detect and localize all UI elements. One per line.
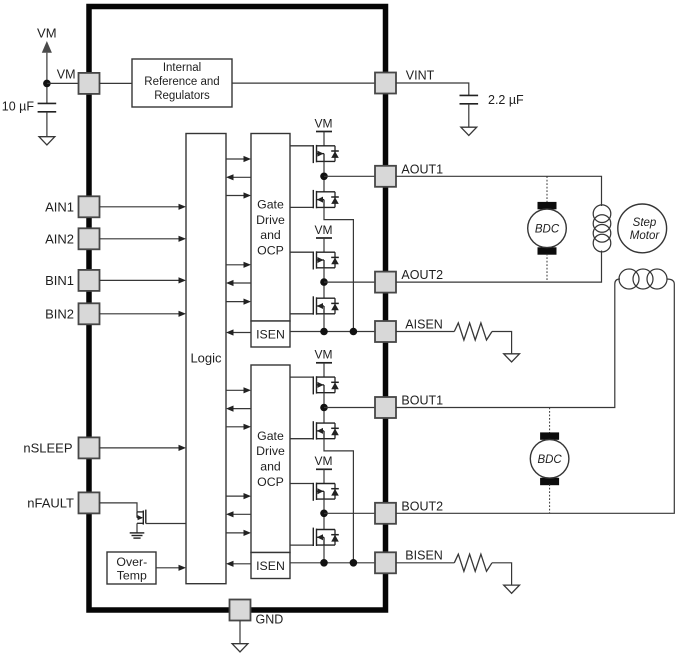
wire VM pin to reference block — [100, 82, 133, 84]
transistor Q8 (B low side 2) — [290, 528, 339, 546]
block Internal Reference and Regulators — [132, 59, 232, 107]
wire VM rail to Q3 drain — [323, 238, 325, 252]
pin VM — [79, 73, 100, 94]
wire Q8 source to ISEN B line — [323, 545, 325, 563]
svg-text:BIN1: BIN1 — [45, 273, 74, 288]
wire AISEN pin to R1 — [396, 331, 454, 333]
pin BOUT2 — [375, 503, 396, 524]
pin AISEN — [375, 321, 396, 342]
pin BIN2 — [79, 303, 100, 324]
pin AIN1 — [79, 196, 100, 217]
wire R1 to ground — [492, 332, 512, 354]
svg-text:nFAULT: nFAULT — [27, 496, 74, 511]
svg-text:BOUT2: BOUT2 — [401, 499, 443, 513]
wire Q1 source to AOUT1 node — [323, 161, 325, 191]
device outline (IC boundary) — [89, 7, 386, 611]
wire VM rail to Q1 drain — [323, 132, 325, 146]
junction ISEN B 1 — [320, 559, 328, 567]
svg-text:Over-: Over- — [116, 555, 147, 569]
wire logic to gate drive B (y=390.3) — [226, 387, 251, 393]
wire VINT pin to C2 — [396, 83, 469, 95]
transistor Q2 (A low side 1) — [290, 190, 339, 208]
resistor R1 (AISEN) (sense) — [454, 323, 492, 340]
svg-text:VM: VM — [315, 454, 333, 468]
svg-text:GND: GND — [256, 612, 284, 626]
wire AOUT2 node to AOUT2 pin — [324, 281, 375, 283]
wire Q2 source to ISEN A line — [324, 207, 353, 331]
wire ISEN B to logic — [226, 561, 251, 567]
svg-text:Gate: Gate — [257, 198, 284, 212]
wire Over-Temp to logic — [156, 565, 186, 571]
wire gate drive A to logic (y=283.0) — [226, 280, 251, 286]
pin VINT — [375, 73, 396, 94]
wire nFAULT pin to Q9 drain — [100, 503, 138, 512]
pin AOUT1 — [375, 166, 396, 187]
ground (open triangle) below R1 — [504, 354, 520, 362]
pin AIN2 — [79, 228, 100, 249]
wire logic to gate drive A (y=195.5) — [226, 192, 251, 198]
svg-text:Gate: Gate — [257, 429, 284, 443]
svg-text:VM: VM — [315, 223, 333, 237]
pin BISEN — [375, 552, 396, 573]
resistor R2 (BISEN) (sense) — [454, 554, 492, 571]
pin BIN1 — [79, 270, 100, 291]
transistor Q1 (A high side 1) — [290, 145, 339, 163]
wire VM arrow to node — [46, 53, 48, 104]
wire VM node to VM pin — [47, 82, 79, 84]
wire AOUT1 pin to winding A — [396, 176, 602, 206]
svg-text:OCP: OCP — [257, 244, 284, 258]
motor BDC 2 (brushed DC) — [530, 432, 569, 485]
svg-text:VM: VM — [57, 68, 76, 82]
svg-text:10 µF: 10 µF — [2, 99, 35, 113]
block Over-Temp — [107, 552, 156, 584]
VM supply rail (A2) — [315, 223, 333, 238]
pin BOUT1 — [375, 397, 396, 418]
transistor Q7 (B high side 2) — [290, 483, 339, 501]
inductor winding A (step motor phase A) — [593, 205, 611, 252]
junction AOUT2 node — [320, 278, 328, 286]
wire reference block to VINT pin — [232, 82, 375, 84]
pin nFAULT — [79, 492, 100, 513]
svg-text:AOUT2: AOUT2 — [401, 268, 443, 282]
wire BISEN pin to R2 — [396, 562, 454, 564]
svg-text:ISEN: ISEN — [256, 559, 285, 573]
transistor Q4 (A low side 2) — [290, 296, 339, 314]
ground (open triangle) below R2 — [504, 585, 520, 593]
pin AOUT2 — [375, 272, 396, 293]
svg-text:Drive: Drive — [256, 213, 285, 227]
wire logic to gate drive A (y=159.0) — [226, 156, 251, 162]
block Gate Drive and OCP (A) — [251, 134, 290, 322]
block Gate Drive and OCP (B) — [251, 365, 290, 553]
svg-text:VM: VM — [315, 116, 333, 130]
transistor Q5 (B high side 1) — [290, 376, 339, 394]
transistor Q3 (A high side 2) — [290, 251, 339, 269]
svg-text:and: and — [260, 228, 281, 242]
svg-text:BOUT1: BOUT1 — [401, 394, 443, 408]
VM supply rail (A1) — [315, 116, 333, 131]
svg-text:nSLEEP: nSLEEP — [23, 441, 72, 456]
svg-text:Internal: Internal — [163, 62, 201, 74]
wire ISEN A sense line — [290, 331, 375, 333]
wire logic to gate drive A (y=264.8) — [226, 262, 251, 268]
capacitor C1 10 uF — [38, 103, 57, 111]
wire Q7 source to BOUT2 node — [323, 499, 325, 529]
motor Step Motor — [618, 204, 667, 253]
svg-text:Drive: Drive — [256, 444, 285, 458]
svg-text:Motor: Motor — [630, 230, 661, 242]
svg-text:AISEN: AISEN — [405, 317, 443, 331]
wire logic to gate drive B (y=532.9) — [226, 530, 251, 536]
svg-text:and: and — [260, 460, 281, 474]
svg-text:BDC: BDC — [537, 454, 562, 466]
wire (dashed) BDC motor 2 to BOUT2 — [549, 484, 551, 513]
junction BOUT2 node — [320, 510, 328, 518]
wire C2 to ground — [468, 104, 470, 127]
wire AIN2 to logic — [100, 236, 187, 242]
VM supply rail (B2) — [315, 454, 333, 469]
svg-text:VM: VM — [37, 26, 57, 41]
wire logic to gate drive A (y=301.6) — [226, 299, 251, 305]
wire Q3 source to AOUT2 node — [323, 268, 325, 298]
ground (open triangle) below C1 — [39, 137, 55, 145]
wire (dashed) BOUT1 to BDC motor 2 — [549, 408, 551, 433]
wire ISEN A to logic — [226, 329, 251, 335]
wire Q4 source to ISEN A line — [323, 314, 325, 332]
wire BOUT1 node to BOUT1 pin — [324, 407, 375, 409]
wire Q6 source to ISEN B line — [324, 439, 353, 563]
junction ISEN B 2 — [350, 559, 358, 567]
svg-text:AIN2: AIN2 — [45, 231, 74, 246]
wire R2 to ground — [492, 563, 512, 585]
wire gate drive B to logic (y=514.3) — [226, 511, 251, 517]
VM supply rail (B1) — [315, 348, 333, 363]
wire AOUT1 node to AOUT1 pin — [324, 175, 375, 177]
wire winding A to AOUT2 pin — [396, 251, 602, 283]
junction ISEN A 2 — [350, 328, 358, 336]
wire winding B to BOUT2 pin — [396, 279, 674, 513]
svg-text:Logic: Logic — [190, 351, 222, 366]
svg-text:VM: VM — [315, 348, 333, 362]
svg-text:2.2 µF: 2.2 µF — [488, 93, 524, 107]
supply arrow VM — [42, 41, 52, 53]
svg-text:AIN1: AIN1 — [45, 199, 74, 214]
svg-text:AOUT1: AOUT1 — [401, 162, 443, 176]
wire BOUT1 pin to winding B — [396, 279, 620, 408]
capacitor C2 2.2 uF — [460, 95, 479, 103]
wire Q9 source to ground — [136, 523, 138, 533]
svg-text:Temp: Temp — [117, 569, 147, 583]
wire GND pin to ground — [239, 621, 241, 644]
svg-text:BDC: BDC — [535, 224, 560, 236]
wire VM rail to Q5 drain — [323, 363, 325, 377]
pin nSLEEP — [79, 437, 100, 458]
svg-text:BIN2: BIN2 — [45, 306, 74, 321]
wire VM rail to Q7 drain — [323, 469, 325, 483]
junction ISEN A 1 — [320, 328, 328, 336]
wire Q9 gate to logic — [146, 523, 186, 525]
wire Q5 source to BOUT1 node — [323, 393, 325, 423]
transistor Q9 (nFAULT open drain) — [137, 510, 146, 525]
wire BOUT2 node to BOUT2 pin — [324, 512, 375, 514]
wire logic to gate drive B (y=496.1) — [226, 493, 251, 499]
pin GND — [230, 600, 251, 621]
block ISEN (B) — [251, 553, 290, 579]
junction AOUT1 node — [320, 173, 328, 181]
junction BOUT1 node — [320, 404, 328, 412]
wire ISEN B sense line — [290, 562, 375, 564]
svg-text:Step: Step — [633, 217, 657, 229]
block ISEN (A) — [251, 321, 290, 347]
svg-text:VINT: VINT — [406, 69, 435, 83]
motor BDC 1 (brushed DC) — [528, 202, 567, 255]
ground (open triangle) below C2 — [461, 127, 477, 135]
wire (dashed) AOUT1 to BDC motor 1 — [546, 176, 548, 202]
wire BIN2 to logic — [100, 311, 187, 317]
wire BIN1 to logic — [100, 277, 187, 283]
block Logic — [186, 134, 226, 584]
inductor winding B (step motor phase B) — [619, 269, 667, 289]
ground (earth) below Q9 — [130, 533, 145, 538]
wire gate drive B to logic (y=408.6) — [226, 406, 251, 412]
svg-text:OCP: OCP — [257, 475, 284, 489]
svg-text:Reference and: Reference and — [144, 76, 219, 88]
wire gate drive A to logic (y=177.3) — [226, 174, 251, 180]
junction VM node — [43, 80, 51, 88]
svg-text:Regulators: Regulators — [154, 90, 210, 102]
wire AIN1 to logic — [100, 204, 187, 210]
wire nSLEEP to logic — [100, 445, 187, 451]
wire C1 to ground — [46, 112, 48, 137]
wire logic to gate drive B (y=426.8) — [226, 424, 251, 430]
transistor Q6 (B low side 1) — [290, 421, 339, 439]
wire (dashed) BDC motor 1 to AOUT2 — [546, 254, 548, 282]
ground (open triangle) below GND pin — [232, 644, 248, 652]
svg-text:BISEN: BISEN — [405, 549, 443, 563]
svg-text:ISEN: ISEN — [256, 328, 285, 342]
